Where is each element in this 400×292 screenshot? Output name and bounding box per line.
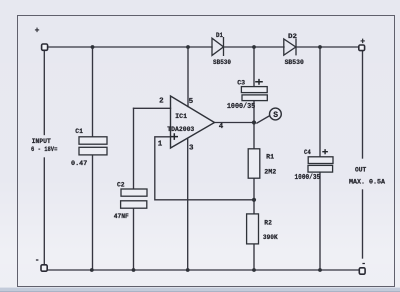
svg-text:47NF: 47NF [114,213,129,220]
svg-text:0.47: 0.47 [71,160,87,167]
svg-text:+: + [360,38,365,47]
svg-text:4: 4 [219,123,224,131]
svg-text:1: 1 [158,140,163,148]
svg-text:INPUT: INPUT [32,138,51,145]
svg-text:6 - 18V=: 6 - 18V= [31,146,57,153]
svg-text:-: - [361,260,366,269]
svg-text:3: 3 [189,144,194,152]
svg-text:2: 2 [159,98,164,106]
svg-text:1000/35: 1000/35 [227,103,256,111]
svg-text:SB530: SB530 [285,59,304,66]
svg-text:D1: D1 [216,32,223,39]
svg-text:5: 5 [189,98,194,106]
svg-text:MAX. 0.5A: MAX. 0.5A [349,179,385,186]
svg-text:390K: 390K [263,234,278,241]
svg-text:OUT: OUT [355,167,366,174]
svg-text:R2: R2 [264,219,272,226]
svg-text:D2: D2 [288,33,297,40]
svg-text:C2: C2 [117,182,125,189]
svg-text:-: - [35,256,40,265]
svg-text:R1: R1 [266,154,274,161]
svg-text:TDA2003: TDA2003 [167,126,194,133]
svg-text:+: + [35,27,40,36]
svg-text:S: S [273,111,278,120]
svg-text:C4: C4 [304,149,311,156]
svg-text:C3: C3 [237,79,245,86]
svg-text:IC1: IC1 [175,113,187,120]
svg-text:1000/35: 1000/35 [295,174,321,182]
svg-text:2M2: 2M2 [264,168,276,175]
svg-text:C1: C1 [75,128,83,135]
svg-text:SB530: SB530 [213,59,231,66]
